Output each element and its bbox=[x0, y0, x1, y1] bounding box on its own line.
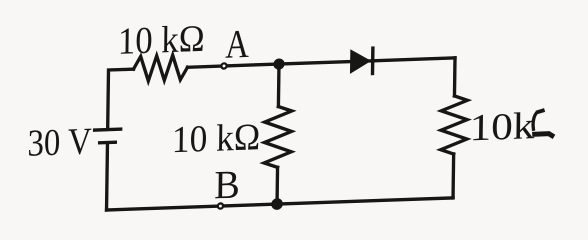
diode D1 triangle bbox=[351, 50, 370, 73]
wire middle branch upper bbox=[277, 64, 281, 107]
battery V1 short plate bbox=[100, 141, 116, 145]
resistor R1 10 kOhm (top horizontal) bbox=[133, 55, 187, 82]
resistor R2 10 kOhm (middle vertical) bbox=[264, 106, 292, 168]
svg-text:10 kΩ: 10 kΩ bbox=[118, 18, 205, 63]
battery V1 long plate bbox=[95, 127, 121, 131]
wire right side upper bbox=[453, 58, 457, 96]
svg-text:30 V: 30 V bbox=[27, 121, 92, 165]
svg-text:10k: 10k bbox=[469, 105, 535, 149]
wire bottom bbox=[107, 198, 454, 210]
label omega glyph of R3 value (drawn in screen coords) bbox=[532, 110, 554, 137]
wire top-left segment bbox=[108, 69, 134, 128]
diode D1 cathode bar bbox=[371, 46, 375, 75]
wire right side lower bbox=[451, 154, 455, 198]
terminal B open circle bbox=[218, 203, 223, 208]
resistor R3 10 kOhm (right vertical) bbox=[441, 95, 468, 154]
svg-text:10 kΩ: 10 kΩ bbox=[172, 116, 261, 161]
junction dot bottom bbox=[271, 198, 283, 210]
junction dot top bbox=[273, 58, 284, 70]
svg-text:B: B bbox=[214, 162, 240, 208]
wire middle branch lower bbox=[275, 167, 279, 204]
wire top middle-right bbox=[188, 58, 456, 67]
svg-text:A: A bbox=[225, 21, 249, 67]
wire left side lower bbox=[105, 145, 109, 211]
terminal A open circle bbox=[221, 63, 226, 68]
